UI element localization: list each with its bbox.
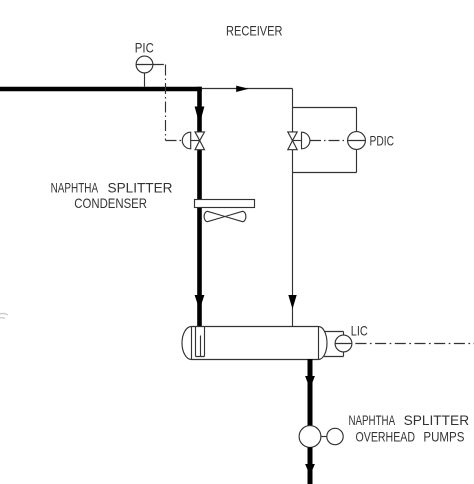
pipe: receiver bottoms outlet (thick vertical to pumps)	[308, 359, 313, 426]
control valve (PDIC) body bowtie on receiver inlet	[288, 132, 297, 141]
pipe: condenser leg below valve down to receiver (thick vertical)	[197, 150, 202, 327]
pump P-B (small circle)	[327, 428, 343, 444]
signal line LIC (dash-dot to right edge)	[355, 343, 474, 345]
flow arrow (down) near bottom edge	[305, 464, 315, 476]
instrument PIC circle with panel line	[136, 56, 153, 73]
pipe: overhead vapor line (thick horizontal from left edge)	[0, 87, 202, 92]
control valve (PDIC) actuator (diaphragm, bulge right)	[302, 132, 310, 149]
control valve PV body (bowtie)	[195, 132, 205, 141]
pump P-A (large circle on line)	[299, 426, 321, 448]
svg-text:RECEIVER: RECEIVER	[226, 24, 283, 39]
PDIC impulse tap loop around valve	[293, 108, 357, 173]
svg-text:NAPHTHA: NAPHTHA	[349, 413, 396, 428]
flow arrow (down) above receiver on thick leg	[195, 295, 205, 310]
stray faint mark at left edge	[0, 313, 8, 318]
pipe: outlet below pumps to bottom edge	[308, 447, 313, 484]
control valve PV actuator (diaphragm, bulge left)	[182, 132, 190, 149]
LIC standpipe nozzles	[324, 332, 344, 357]
instrument LIC circle with line	[335, 335, 352, 352]
svg-text:PIC: PIC	[135, 41, 154, 56]
instrument PDIC circle with panel line	[348, 132, 366, 150]
thin line: vapor bypass to receiver (horizontal with corner down)	[202, 89, 293, 327]
svg-text:SPLITTER: SPLITTER	[108, 180, 173, 195]
condenser tube bundle (rectangle over pipe)	[195, 200, 255, 208]
PIC tap stem to pipe	[144, 73, 146, 87]
svg-text:SPLITTER: SPLITTER	[404, 413, 470, 428]
flow arrow (right) on receiver inlet line	[236, 86, 249, 92]
svg-text:LIC: LIC	[351, 324, 368, 339]
vessel internal inlet dip tube	[196, 327, 205, 357]
valve PDIC stem connector	[293, 140, 302, 142]
svg-text:PDIC: PDIC	[370, 133, 395, 148]
receiver vessel (horizontal drum with dished ends)	[182, 327, 327, 360]
flow arrow (down) on thin vertical above receiver	[288, 295, 296, 309]
svg-text:PUMPS: PUMPS	[423, 430, 464, 445]
valve PV stem connector	[191, 140, 200, 142]
signal line PIC to valve actuator (dash-dot)	[153, 65, 183, 141]
svg-text:NAPHTHA: NAPHTHA	[51, 180, 99, 195]
condenser fan blades (infinity symbol)	[204, 211, 246, 221]
pump connector line	[321, 436, 327, 438]
pipe: condenser inlet leg (thick vertical, corner to valve)	[197, 87, 202, 132]
flow arrow (down) on outlet above pumps	[305, 376, 315, 389]
svg-text:CONDENSER: CONDENSER	[74, 196, 147, 211]
flow arrow (down) on condenser leg	[195, 107, 205, 125]
signal line PDIC to actuator (dash-dot)	[310, 140, 348, 142]
svg-text:OVERHEAD: OVERHEAD	[356, 430, 416, 445]
